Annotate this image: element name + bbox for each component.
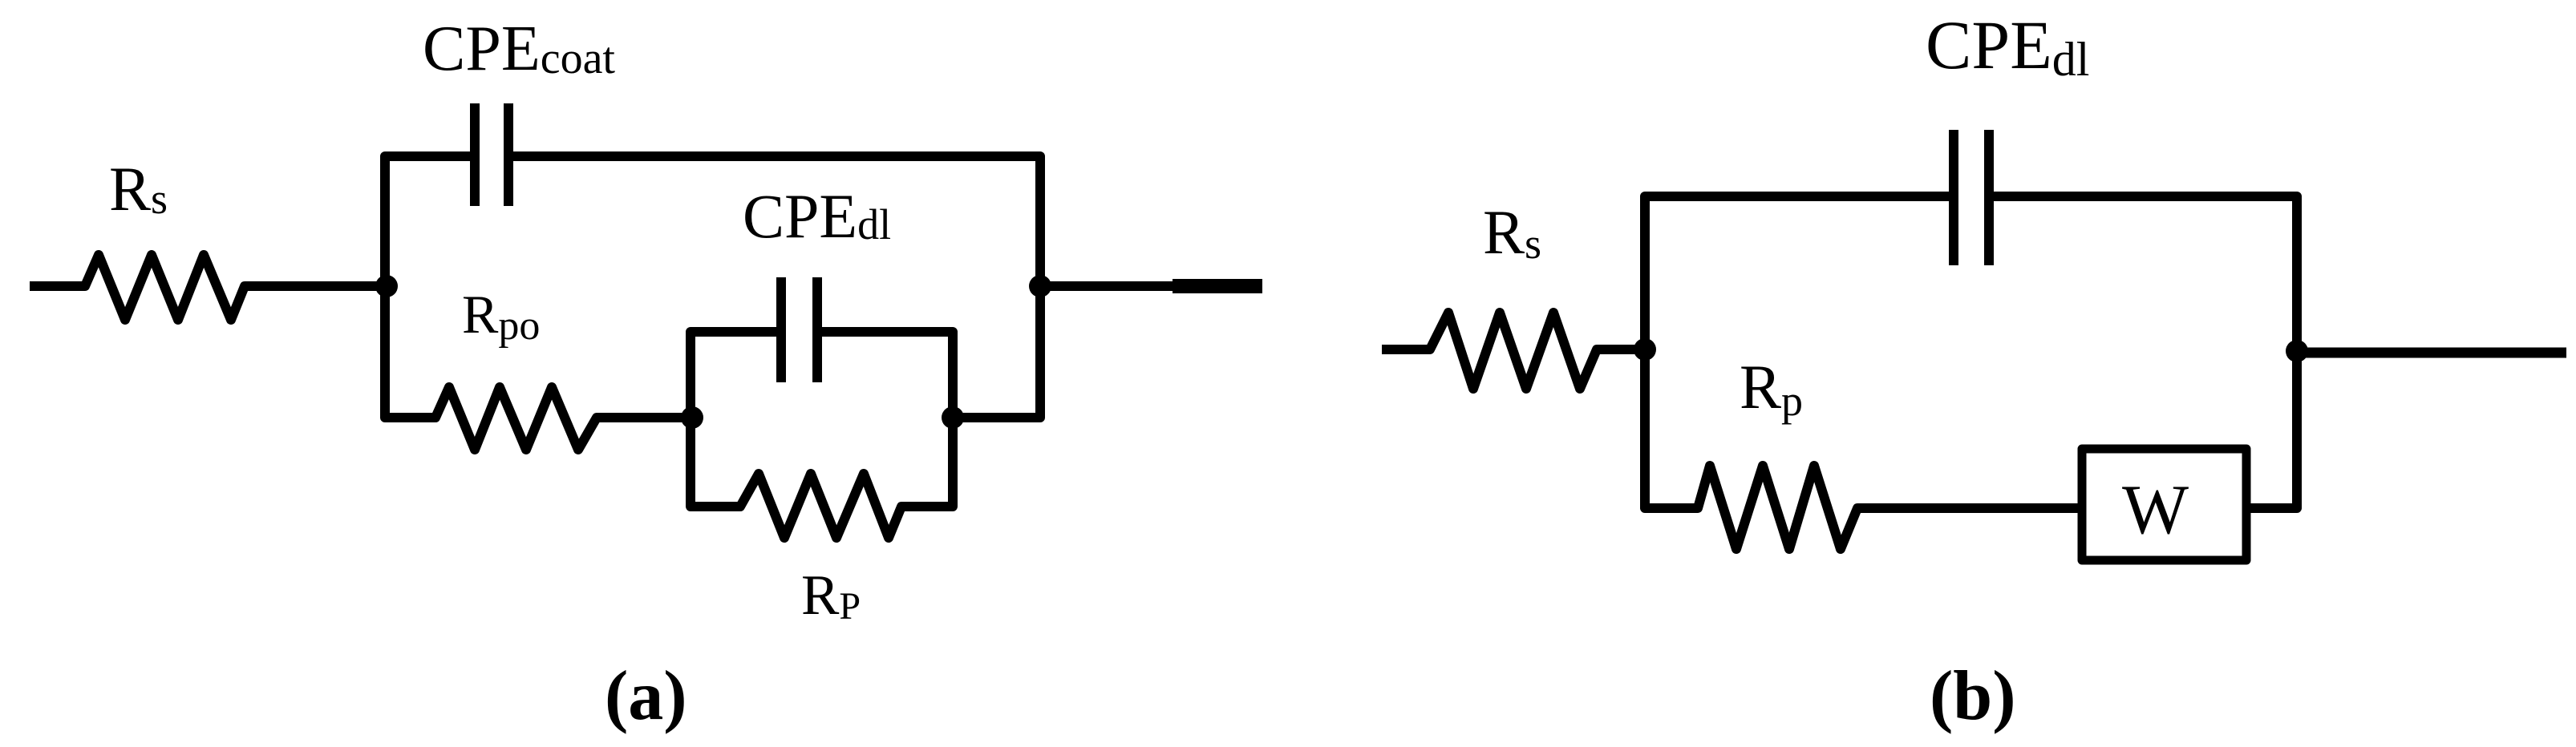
wire: left vertical of outer parallel (a) joined with Rpo bottom branch — [385, 156, 691, 450]
node E (b, right junction) — [2286, 340, 2308, 362]
node B (a, inner left junction) — [681, 406, 703, 429]
svg-text:(b): (b) — [1930, 657, 2016, 735]
Warburg element W box — [2082, 449, 2246, 560]
node C (a, inner right junction) — [942, 406, 964, 429]
capacitor CPEcoat right plate — [504, 103, 513, 206]
node A (a, left junction) — [375, 275, 398, 297]
wire: circuit b output — [2297, 348, 2566, 358]
capacitor CPEdl (a) left plate — [776, 277, 786, 382]
wire: inner parallel box loop with resistor RP (a) — [691, 332, 953, 538]
capacitor CPEdl (a) right plate — [812, 277, 822, 382]
node D (b, left junction) — [1634, 338, 1656, 361]
resistor Rs (b) with input stub and lead wires — [1382, 313, 1645, 389]
svg-text:W: W — [2122, 471, 2189, 549]
wire: left vertical of parallel (b) joined with Rp bottom branch — [1645, 196, 2078, 549]
capacitor CPEdl (b) left plate — [1949, 130, 1958, 265]
capacitor CPEdl (b) right plate — [1984, 130, 1994, 265]
svg-text:(a): (a) — [605, 657, 687, 735]
node (a, right junction) — [1029, 275, 1051, 297]
capacitor CPEcoat left plate — [470, 103, 480, 206]
wire: top branch and right vertical of outer parallel (a) — [513, 156, 1040, 418]
wire: top branch and right vertical of parallel (b) — [1994, 196, 2297, 508]
resistor Rs (a) with input stub and lead wires — [30, 255, 385, 320]
wire: circuit a output thick end — [1173, 279, 1262, 293]
wire: circuit a output — [1040, 281, 1173, 291]
